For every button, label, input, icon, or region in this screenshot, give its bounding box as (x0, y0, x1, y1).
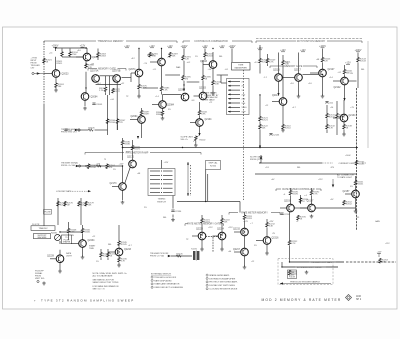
svg-text:+12V: +12V (119, 164, 124, 166)
transistor Q2127 (319, 69, 335, 77)
transistor Q2157 (343, 190, 360, 198)
wire vertical Q2117 (298, 53, 300, 74)
power +12V K (280, 50, 286, 52)
resistor R2245 (118, 241, 128, 247)
svg-text:1: 1 (207, 275, 208, 277)
power +12V H (219, 46, 225, 48)
transistor Q2074 (129, 69, 143, 77)
wire Q2197 collector out (316, 207, 356, 209)
wire timing linkage (190, 165, 192, 196)
svg-text:Q2094: Q2094 (131, 116, 139, 118)
logo Tektronix diamond (346, 295, 352, 301)
wire Q2116-Q2117 coupling (283, 77, 295, 79)
resistor R2151 (354, 180, 364, 186)
wire SWP CAL drops (205, 170, 207, 202)
svg-text:Q2172: Q2172 (127, 157, 135, 159)
switch SW2130 TIME MAGNIFIER (232, 63, 251, 71)
node callout dashed box (278, 259, 333, 285)
resistor R2086 (156, 111, 164, 117)
wire bottom left rail (60, 231, 83, 233)
wire vertical Q2043 (212, 52, 214, 61)
transistor Q2216 (263, 237, 279, 245)
node net UNBLANKING CONTINUOUS COMPARATOR (183, 40, 252, 43)
svg-text:RATE DISPLAYED: RATE DISPLAYED (154, 279, 172, 282)
node TRIGGER MODE box (34, 234, 51, 240)
node net DOT POSITION MEMORY (256, 39, 362, 44)
transistor Q2104 (196, 119, 212, 127)
svg-text:R2231: R2231 (84, 232, 91, 234)
svg-text:Q2173: Q2173 (110, 183, 118, 185)
svg-text:R2114: R2114 (285, 128, 292, 130)
resistor R2114 (282, 124, 292, 130)
arrow collector J (259, 146, 261, 149)
wire x122 drop (122, 145, 124, 160)
wire Q2223 stem (201, 215, 203, 218)
svg-text:LIGHT: LIGHT (66, 256, 73, 258)
wire Q2172 stem (132, 140, 134, 145)
wire Q2093 base (163, 94, 182, 96)
svg-text:FROM <2> VIA: FROM <2> VIA (150, 255, 164, 258)
svg-text:R2161: R2161 (90, 167, 97, 169)
capacitor C2193 (280, 213, 291, 216)
ground GND1 (54, 89, 58, 93)
svg-text:-.6: -.6 (283, 194, 285, 196)
resistor R2131 (326, 113, 336, 119)
resistor R2221 (201, 218, 211, 224)
transistor Q2023 (52, 70, 69, 78)
transistor Q2193 (284, 201, 294, 212)
wire vertical J (259, 94, 260, 95)
wire Q2173 base (112, 186, 119, 188)
svg-text:Q2127: Q2127 (328, 69, 336, 71)
transistor Q2043 (200, 61, 217, 69)
svg-text:PREVIOUS TRIGGER SAMPLE: PREVIOUS TRIGGER SAMPLE (290, 281, 320, 284)
power +100V M (319, 46, 326, 48)
wire pair to toroid (212, 237, 214, 252)
svg-text:3.9K: 3.9K (201, 114, 206, 116)
power +12V N (345, 63, 351, 65)
ground GND21 (42, 282, 46, 286)
wire Q2216 base (256, 240, 263, 242)
svg-text:Q2197: Q2197 (307, 201, 315, 203)
svg-text:+12V: +12V (243, 221, 248, 223)
svg-text:2.7K: 2.7K (291, 243, 296, 245)
power +100V F (181, 46, 188, 48)
svg-text:RATE METER RAMP: RATE METER RAMP (126, 151, 149, 154)
svg-text:TIME: TIME (89, 248, 94, 250)
svg-text:SEL: SEL (163, 217, 167, 219)
wire bottom right feed 2 (282, 266, 338, 268)
svg-text:3.3K: 3.3K (152, 56, 157, 58)
resistor R2095 (182, 75, 192, 81)
wire Q2142 base (333, 80, 341, 82)
ground GND13 (58, 270, 62, 274)
wire Q2116 collector to Q2127 (303, 74, 319, 76)
resistor R2143 (357, 57, 367, 63)
wire x58 drop (57, 198, 59, 225)
svg-text:+9: +9 (296, 221, 298, 223)
wire coupling d (217, 74, 228, 76)
wire Q2062 base (76, 56, 83, 58)
svg-text:MOD 2 MEMORY & RATE METER: MOD 2 MEMORY & RATE METER (262, 298, 342, 302)
ground GND16 (200, 248, 204, 252)
svg-text:+8.2: +8.2 (131, 58, 135, 60)
wire Q2224 stem (221, 215, 223, 218)
svg-text:1%: 1% (113, 169, 116, 171)
node TD PULSE SHAPER box (62, 235, 72, 244)
svg-text:1%: 1% (195, 56, 198, 58)
svg-text:LOW REP RATE: LOW REP RATE (56, 190, 72, 193)
ground GND20 (305, 271, 309, 275)
ground GND4 (137, 95, 141, 99)
power +12V G (202, 46, 208, 48)
wire Q2023 emitter (55, 78, 57, 83)
svg-text:X100: X100 (242, 107, 248, 109)
node net MEMORY GATE (88, 67, 126, 70)
wire R2194 stub (300, 195, 302, 204)
node SLOPE LIMIT callout (181, 137, 194, 142)
wire Q2113 emitter (282, 106, 284, 125)
svg-text:+3.9: +3.9 (254, 62, 258, 64)
svg-text:MEMORY GATE: MEMORY GATE (285, 65, 303, 68)
svg-text:5: 5 (207, 288, 208, 290)
svg-text:SWP CAL: SWP CAL (209, 162, 219, 165)
arrow emitter Q2142 (343, 98, 345, 101)
svg-text:1%: 1% (96, 261, 99, 263)
svg-text:SH 2: SH 2 (356, 299, 362, 301)
svg-text:GAIN: GAIN (375, 220, 380, 223)
wire R2241 stubs (100, 249, 102, 252)
transistor Q2084 (159, 101, 175, 109)
net CURRENT LIMITER (322, 163, 366, 165)
svg-text:4: 4 (207, 285, 208, 287)
transistor Q2073A (90, 70, 99, 83)
svg-text:Q2215: Q2215 (233, 229, 241, 231)
transistor Q2103 (199, 88, 207, 100)
power +100V I (229, 46, 236, 48)
resistor R2252 (288, 240, 298, 245)
ground GND7 (321, 95, 325, 99)
svg-text:+12V: +12V (318, 179, 323, 181)
svg-text:R2011: R2011 (57, 63, 64, 65)
wire ladder feed (221, 82, 227, 84)
node legend external switch (151, 273, 183, 290)
wire vertical memory gate right (116, 82, 118, 130)
svg-text:+12V: +12V (208, 227, 213, 229)
node sheet number (356, 296, 362, 301)
node LOW REP RATE (56, 190, 91, 193)
wire Q2223 base (192, 235, 198, 237)
svg-text:SEL: SEL (219, 56, 223, 58)
svg-text:+9.4: +9.4 (329, 77, 333, 79)
svg-text:R2106: R2106 (109, 122, 116, 124)
wire Q2224 base (213, 235, 219, 237)
svg-text:1W: 1W (350, 73, 353, 75)
resistor R2178 (78, 201, 88, 207)
resistor R2179 (85, 201, 95, 207)
svg-text:4.7K: 4.7K (269, 62, 274, 64)
svg-text:+2.1: +2.1 (153, 69, 157, 71)
arrow emitter Q2104 (198, 133, 200, 136)
svg-text:THRESHOLD MEMORY: THRESHOLD MEMORY (97, 40, 124, 43)
wire vertical G (204, 49, 206, 53)
wire Q2228 stem (59, 241, 61, 244)
resistor R2132 (326, 124, 336, 130)
svg-text:75: 75 (104, 159, 106, 161)
resistor R2164 (106, 164, 116, 170)
svg-text:+3.6: +3.6 (290, 83, 294, 85)
svg-text:Q2116: Q2116 (273, 70, 280, 72)
wire R2106 stubs (107, 130, 109, 135)
svg-text:R2181: R2181 (124, 144, 131, 146)
wire right vertical bus lower (356, 148, 358, 231)
svg-text:R2026: R2026 (88, 127, 95, 129)
svg-text:R2281: R2281 (51, 233, 58, 235)
svg-text:+4.2: +4.2 (121, 83, 125, 85)
svg-text:R2135: R2135 (358, 164, 365, 166)
wire Q2094 base (130, 119, 138, 121)
svg-text:R2131: R2131 (329, 117, 336, 119)
svg-text:Q2043: Q2043 (200, 61, 208, 63)
resistor R2241 (100, 252, 110, 258)
wire vertical +100V F (183, 49, 185, 56)
wire vertical Q2083 (161, 49, 163, 59)
resistor R2126 (321, 57, 331, 63)
svg-text:R2191: R2191 (292, 194, 299, 196)
svg-text:SIG <2>: SIG <2> (181, 138, 189, 141)
svg-text:R2211: R2211 (246, 218, 253, 220)
svg-text:2.2K: 2.2K (70, 232, 75, 234)
svg-text:SEL: SEL (297, 167, 301, 169)
svg-text:STAIRCASE GENERATOR: STAIRCASE GENERATOR (154, 283, 180, 286)
svg-text:+3.6: +3.6 (308, 83, 312, 85)
svg-text:Q2074: Q2074 (129, 69, 137, 71)
wire pickoff junctions (85, 165, 86, 166)
svg-text:SEMICONDUCTOR TYPES: SEMICONDUCTOR TYPES (93, 282, 120, 284)
resistor R2196 (297, 215, 307, 221)
svg-text:MACHINE: MACHINE (38, 236, 47, 239)
svg-text:Q2113: Q2113 (272, 95, 279, 97)
resistor R2152 (343, 200, 353, 206)
svg-text:+9.1: +9.1 (225, 69, 229, 71)
svg-text:-3.8: -3.8 (191, 100, 194, 102)
svg-text:SEE TABLE: SEE TABLE (205, 98, 216, 101)
capacitor C2145 (269, 134, 280, 137)
transistor Q2228 (47, 255, 64, 263)
wire Q2173 emitter (122, 191, 124, 201)
capacitor C2029 (64, 129, 72, 132)
resistor R2108 (259, 58, 269, 64)
svg-text:CONTINUOUS COMPARATOR: CONTINUOUS COMPARATOR (194, 40, 228, 43)
node bias annotations (49, 50, 390, 263)
ground R2102 (194, 141, 198, 147)
power +12V corner (377, 252, 382, 258)
transistor Q2113 (272, 95, 287, 105)
wire Q2157 base (345, 193, 352, 195)
node SAMPLING SWEEP callout (206, 161, 221, 170)
transistor Q2116 (273, 70, 282, 82)
svg-text:FROM <1> VIA: FROM <1> VIA (61, 164, 75, 167)
wire Q2083 base (150, 61, 158, 63)
wire vertical magnifier (231, 49, 233, 63)
svg-text:PROTECT SWITCHING AMPL: PROTECT SWITCHING AMPL (209, 281, 238, 284)
svg-text:DIGITAL UNIT SWITCHING: DIGITAL UNIT SWITCHING (209, 284, 235, 287)
wire bottom pair rail (206, 236, 219, 238)
wire section divider left (43, 41, 45, 105)
capacitor C2125 (325, 102, 333, 105)
svg-text:+96: +96 (330, 107, 333, 109)
wire R2011 stubs (61, 49, 63, 52)
power +12V B (80, 46, 86, 48)
wire switch out bottom (172, 196, 174, 209)
resistor R2081 (149, 52, 159, 58)
svg-text:Q2093: Q2093 (178, 90, 186, 92)
arrow emitter Q2094 (137, 136, 139, 139)
node RATE METER RANGE note (205, 92, 220, 102)
resistor R2111 (282, 60, 292, 66)
wire top rail threshold (56, 47, 88, 49)
node SLOPE GATE IN (250, 156, 263, 162)
transistor Q2172 (127, 157, 136, 168)
svg-text:Q2084: Q2084 (167, 105, 175, 107)
ground GND8 (281, 129, 285, 133)
wire Q2217 base (234, 251, 241, 253)
resistor R2242 (107, 252, 117, 258)
resistor R2171 (131, 145, 141, 151)
svg-text:R2245: R2245 (121, 244, 128, 246)
svg-text:TRIGGER & HOLDOFF: TRIGGER & HOLDOFF (154, 277, 177, 279)
power +12V L (300, 50, 306, 52)
wire Q2197 top (311, 188, 313, 190)
node TIME BASE box (288, 270, 297, 279)
svg-text:4: 4 (152, 287, 153, 289)
switch SW2180 TIMING (148, 169, 175, 204)
svg-text:+12V: +12V (385, 243, 390, 245)
transistor Q2223 (196, 229, 206, 240)
wire vertical +300V feed (55, 48, 57, 51)
svg-text:R2152: R2152 (346, 204, 353, 206)
svg-text:SEE <6> <7>: SEE <6> <7> (93, 288, 106, 291)
wire memory out (122, 77, 132, 79)
resistor R2135 (355, 160, 365, 166)
svg-text:SPARE GATES AMPL: SPARE GATES AMPL (209, 274, 230, 277)
power +12V J (257, 48, 263, 50)
power +100V O (355, 50, 362, 52)
transistor Q2142 (334, 77, 349, 89)
resistor R2075 (138, 84, 148, 90)
variable resistor R2102 (194, 136, 207, 142)
wire x282 drop (281, 262, 283, 267)
svg-text:SEL: SEL (361, 69, 365, 71)
node PREVIOUS TRIGGER SAMPLE (280, 281, 331, 285)
svg-text:4.7K: 4.7K (329, 128, 334, 130)
node TRIGGER SIGNAL IN (61, 128, 79, 134)
svg-text:DOT POSITION MEMORY: DOT POSITION MEMORY (297, 40, 326, 43)
wire Q2094 (141, 108, 143, 110)
resistor R2109 (266, 58, 276, 64)
resistor R2191 (289, 190, 299, 196)
variable resistor R2281 (51, 233, 61, 241)
resistor R2138 (343, 124, 353, 130)
svg-text:Q2134: Q2134 (349, 115, 357, 117)
resistor R2248 (67, 228, 77, 234)
svg-text:5%: 5% (254, 245, 257, 247)
svg-text:CURRENT LIMITER: CURRENT LIMITER (339, 163, 358, 165)
ground GND19 (265, 252, 269, 256)
svg-text:Q2062: Q2062 (92, 57, 100, 59)
node net THRESHOLD MEMORY (44, 40, 177, 43)
svg-text:R2226: R2226 (176, 253, 183, 255)
node title left (34, 298, 135, 302)
svg-text:R2041: R2041 (207, 56, 214, 58)
svg-text:+4.2: +4.2 (97, 83, 101, 85)
ground GND10 (121, 201, 125, 205)
svg-text:+35: +35 (356, 217, 359, 219)
wire x325 drop (326, 105, 328, 113)
wire Q2023 junction (55, 47, 56, 48)
svg-text:RATE METER MEMORY: RATE METER MEMORY (241, 211, 268, 214)
ground GND2 (83, 107, 87, 111)
svg-text:EXTENDED BODY CURVE: EXTENDED BODY CURVE (297, 267, 322, 269)
wire Q2043 base (203, 64, 209, 66)
wire rate controller pair (295, 207, 308, 209)
resistor R2011 (57, 51, 64, 65)
wire Q2172-Q2173 diagonal (125, 167, 131, 183)
wire Q2127 base (310, 72, 319, 74)
svg-text:-.62: -.62 (338, 72, 341, 74)
transformer T2225 (191, 249, 199, 261)
svg-text:SWITCH: SWITCH (157, 201, 166, 203)
wire lower mid run (255, 173, 357, 175)
node input connector pickoff (78, 165, 80, 167)
resistor R2044 (212, 80, 222, 86)
transistor Q2117 (294, 70, 302, 82)
wire Q2193 top (290, 188, 292, 190)
node PICKOFF SIGNAL IN (61, 162, 79, 168)
wire Q2134 base (333, 117, 340, 119)
svg-text:R2160: R2160 (210, 166, 217, 168)
transistor Q2073B (112, 71, 121, 83)
resistor R2085 (160, 86, 170, 92)
wire switch feed top (161, 160, 163, 169)
svg-text:+12V: +12V (164, 162, 169, 164)
svg-text:+1.4: +1.4 (155, 96, 159, 98)
node TRIGGER LOOP GAIN line (290, 261, 345, 264)
power +12V D (149, 46, 155, 48)
transistor Q2064 (81, 93, 98, 101)
transistor Q2134 (340, 114, 356, 122)
svg-text:R2097: R2097 (143, 114, 150, 116)
transistor Q2062 (83, 53, 99, 61)
svg-text:5%: 5% (168, 109, 171, 111)
svg-text:TRIGGER LOOP GAIN: TRIGGER LOOP GAIN (311, 261, 332, 264)
svg-text:FROM Q2283: FROM Q2283 (250, 159, 263, 161)
svg-text:TIME/DIV: TIME/DIV (38, 228, 48, 230)
svg-text:C2193: C2193 (284, 214, 291, 216)
wire Q2215 stem (244, 212, 246, 215)
svg-text:WAS: WAS (176, 66, 181, 69)
wire comparator run (261, 162, 322, 164)
svg-text:OFF: OFF (242, 112, 247, 114)
resistor R2141 (343, 69, 353, 75)
svg-text:+3.4: +3.4 (208, 69, 212, 71)
svg-text:R2136: R2136 (339, 117, 346, 119)
node net RATE METER CONTROLLER (276, 188, 321, 191)
node TRIGGER PICKOFF IN (150, 253, 171, 258)
wire Q2062 emitter (85, 61, 87, 66)
wire Q2217 emitter (244, 256, 246, 267)
resistor R2176 (64, 201, 74, 207)
